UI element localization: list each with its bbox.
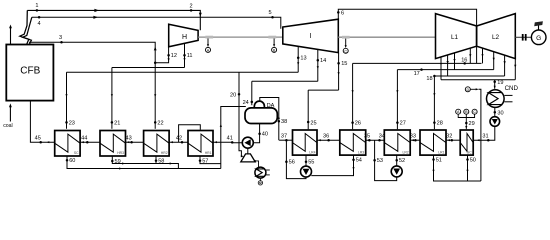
gland leak A [206,39,211,53]
wire LP extraction rail node 17 [396,68,494,129]
svg-text:1: 1 [35,3,38,9]
BFPT condenser [255,167,270,178]
boiler feed pump [242,137,253,148]
LR4 drain pump [301,166,312,177]
svg-text:21: 21 [114,120,120,126]
boiler steam lead break symbol [20,10,32,44]
feed pump turbine [241,148,255,162]
wire hot reheat node 4 node 5 [32,10,281,29]
svg-text:24: 24 [243,100,249,106]
svg-text:37: 37 [281,134,287,140]
deaerator DA [245,101,277,123]
svg-text:36: 36 [323,134,329,140]
svg-text:51: 51 [436,157,442,163]
wire DA outlet node 40 [253,124,268,143]
gland leak B [272,39,277,53]
svg-text:HR3: HR3 [117,151,124,155]
svg-text:CFB: CFB [20,66,40,77]
svg-text:LR1: LR1 [438,150,444,154]
wire cold reheat node 3 [29,35,157,63]
svg-text:6: 6 [341,10,344,16]
svg-text:27: 27 [400,121,406,127]
feed pump turbine exhaust to cooler [254,160,258,167]
wire drain node 60 SC [66,156,221,170]
svg-text:5: 5 [268,10,271,16]
exciter flag [534,21,543,30]
wire HP drains riser to deaerator [220,107,246,169]
svg-text:DA: DA [267,103,275,109]
IP turbine I [283,19,339,52]
svg-text:12: 12 [171,53,177,59]
flue gas arrow [9,25,12,45]
svg-text:GC: GC [467,150,473,154]
svg-text:HR2: HR2 [161,151,168,155]
LP heater LR3 [340,130,366,155]
svg-text:42: 42 [176,135,182,141]
svg-text:H: H [182,34,187,41]
svg-text:2: 2 [190,3,193,9]
svg-text:38: 38 [281,119,287,125]
gland seal collectors A B C [456,109,477,129]
svg-text:59: 59 [115,159,121,165]
wire drain node 58 HR2 [155,156,179,169]
svg-text:15: 15 [341,61,347,67]
LP heater LR4 [293,130,318,155]
HP heater HR1 [188,131,213,157]
wire IP extraction node 13 rail to node 23 SC [65,47,306,129]
wire IP extraction node 14 rail to deaerator node 24 [243,50,327,106]
svg-text:LR3: LR3 [358,150,364,154]
coal feed arrow [3,103,13,128]
LP turbine L1 L2 [436,14,516,59]
wire IP extraction node 15 to node 25 LR4 [307,53,347,129]
wire condensate main nodes 32-37 [279,134,460,142]
svg-text:4: 4 [38,21,41,27]
svg-text:SC: SC [74,151,79,155]
svg-text:LR2: LR2 [402,150,408,154]
svg-text:28: 28 [437,121,443,127]
wire drain node 51 LR1 [432,155,481,181]
gland steam condenser GC [460,130,473,155]
svg-text:56: 56 [289,160,295,166]
wires LP extraction drops [440,48,517,80]
svg-text:16: 16 [461,57,467,63]
svg-text:13: 13 [300,56,306,62]
wire drain node 50 GC [466,155,476,181]
svg-text:LR4: LR4 [309,150,315,154]
CFB boiler [6,45,53,101]
HP turbine H [169,24,198,47]
connector D to drain riser [465,87,481,181]
svg-text:44: 44 [81,135,87,141]
shaft L to generator [515,34,531,41]
wire LP waist exhaust drop [476,46,478,63]
svg-text:34: 34 [379,134,385,140]
shaft I to L [338,36,435,39]
svg-text:17: 17 [414,71,420,77]
svg-text:31: 31 [482,134,488,140]
wire LP extraction rail node 18 [426,75,504,129]
wire H exhaust node 12 to node 22 HR2 [154,47,177,129]
svg-text:33: 33 [410,134,416,140]
wire drain node 57 HR1 [199,156,221,165]
LP heater LR2 [384,130,410,155]
svg-text:60: 60 [69,158,75,164]
svg-text:40: 40 [262,132,268,138]
svg-text:50: 50 [470,157,476,163]
svg-text:14: 14 [320,58,326,64]
wire feedwater nodes 42-45 to boiler [30,101,188,143]
svg-text:43: 43 [125,135,131,141]
svg-text:I: I [310,33,312,40]
HP heater SC [55,131,80,157]
condenser CND [487,85,519,107]
svg-text:30: 30 [497,110,503,116]
svg-text:32: 32 [446,134,452,140]
svg-text:52: 52 [399,158,405,164]
svg-text:45: 45 [35,135,41,141]
connector D below BFPT condenser [258,178,262,185]
wire crossover node 6 [337,9,477,26]
svg-text:58: 58 [158,159,164,165]
svg-text:G: G [536,35,541,42]
wire drain node 54 LR3 [311,155,362,176]
svg-text:54: 54 [356,158,362,164]
condensate pump 30 [490,117,500,127]
svg-text:19: 19 [497,80,503,86]
svg-text:20: 20 [230,92,236,98]
svg-text:29: 29 [469,121,475,127]
svg-text:57: 57 [202,159,208,165]
wire steam node 20 to feed pump turbine [230,72,244,157]
HP heater HR2 [144,131,170,157]
svg-text:3: 3 [59,35,62,41]
svg-text:11: 11 [187,53,193,59]
svg-text:53: 53 [377,158,383,164]
svg-text:22: 22 [157,120,163,126]
wire LP exhaust rail node 19 to condenser [441,80,515,89]
svg-text:25: 25 [310,121,316,127]
shaft H to I [198,36,283,39]
wire condenser to pump node 30 [494,107,504,117]
wire drain node 59 HR3 [111,156,156,165]
svg-text:L2: L2 [492,34,500,41]
svg-text:coal: coal [3,123,13,129]
wire feedwater node 41 [213,135,243,143]
svg-text:L1: L1 [451,34,459,41]
wire LR4 pump discharge node 56 [285,140,306,178]
svg-text:C: C [344,49,347,53]
wire condensate node 31 [474,126,495,141]
wire HR1 steam loop [179,125,201,143]
svg-text:41: 41 [227,135,233,141]
svg-text:C: C [473,110,476,114]
gland leak C [343,39,348,54]
svg-text:26: 26 [355,121,361,127]
generator G [531,30,546,45]
svg-text:D: D [466,88,469,92]
wire drain node 55 LR4 pump node 56 [305,155,315,166]
wire H extraction node 11 rail [111,43,193,128]
svg-text:55: 55 [308,160,314,166]
svg-text:35: 35 [364,134,370,140]
wire condensate riser node 38 to deaerator [260,98,287,141]
LP heater LR1 [420,130,446,155]
wire LR2 pump discharge node 53 [373,140,396,180]
wire drain node 52 LR2 pump [395,155,405,166]
svg-text:HR1: HR1 [205,151,212,155]
svg-text:CND: CND [505,85,519,92]
wire LP extraction rail node 16 [351,57,481,129]
wire main steam node 1 node 2 [27,3,202,30]
svg-text:23: 23 [69,120,75,126]
LR2 drain pump [391,166,402,177]
svg-text:18: 18 [426,76,432,82]
HP heater HR3 [100,131,126,157]
